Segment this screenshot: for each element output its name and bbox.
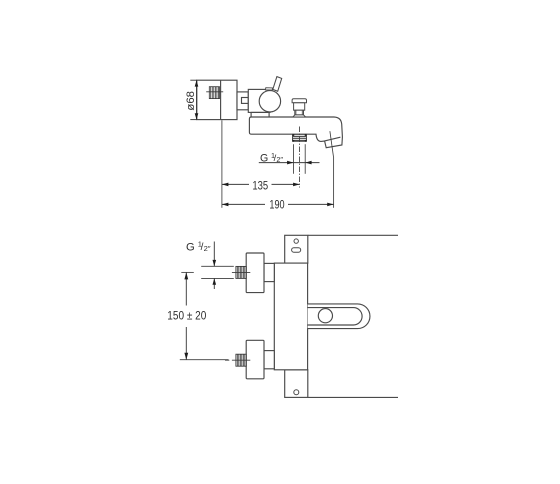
neck between knob and body — [237, 92, 248, 110]
wall top edge line — [308, 234, 398, 236]
lever base cap — [265, 88, 272, 90]
svg-text:ø68: ø68 — [185, 91, 197, 111]
svg-text:2″: 2″ — [204, 244, 211, 253]
stem under handle circle — [268, 113, 270, 117]
spout stadium outer outline — [308, 304, 370, 329]
top inlet centre line — [232, 271, 250, 273]
bath spout outline — [249, 117, 342, 148]
diverter stem — [295, 110, 304, 115]
dimension line G 1/2 (top view) — [259, 162, 320, 164]
bottom mounting tab — [285, 370, 308, 398]
top knob (plan) — [246, 253, 264, 293]
dimension line ø68 with arrows — [196, 80, 198, 119]
neck notch — [242, 98, 249, 104]
dimension line 150 ± 20 — [185, 272, 187, 305]
handle boss circle — [259, 91, 280, 112]
lever handle arm — [273, 77, 282, 92]
bottom inlet connector — [264, 351, 274, 369]
base flange under body — [251, 111, 268, 113]
diverter knob cap — [292, 99, 306, 103]
top tab screw hole — [294, 239, 298, 243]
G 1/2 dimension arrows (plan) — [213, 242, 215, 267]
dimension ø68 extension stubs — [190, 79, 197, 81]
knurled ring hatch on knob — [209, 87, 219, 99]
top view: control knob body — [197, 80, 237, 119]
diverter knob cylinder — [294, 103, 305, 110]
bottom knob (plan) — [246, 340, 264, 379]
shower hose connection nut — [293, 134, 307, 141]
dimension 190 line — [222, 203, 265, 205]
svg-text:G: G — [186, 242, 195, 254]
top mounting tab — [285, 235, 308, 263]
extension line from mounting face (left reference) — [221, 120, 223, 208]
hose centre line — [299, 127, 301, 188]
diverter base flare — [293, 115, 306, 117]
spout tip centre line — [330, 131, 334, 157]
150 dimension top tick — [181, 271, 194, 273]
bottom inlet centre line — [225, 359, 229, 361]
top tab slot — [292, 248, 301, 253]
aerator divider line — [325, 137, 341, 141]
svg-text:190: 190 — [269, 197, 285, 211]
top inlet connector — [264, 263, 274, 281]
diverter circle in stadium — [318, 309, 332, 323]
hose thread extension lines — [293, 144, 295, 174]
knob flange divider line — [220, 80, 222, 119]
svg-text:150 ± 20: 150 ± 20 — [167, 309, 206, 323]
bottom tab screw hole — [294, 390, 299, 395]
150 dimension bottom extension line — [180, 359, 229, 361]
svg-text:135: 135 — [252, 178, 268, 192]
thermostat body (plan) — [274, 263, 307, 370]
G 1/2 thread extension lines (plan) — [201, 265, 234, 267]
wall bottom edge line — [308, 396, 398, 398]
bottom inlet thread G 1/2 — [236, 354, 246, 366]
top inlet thread G 1/2 — [236, 266, 246, 278]
mixer body — [248, 89, 270, 112]
dimension 135 line — [222, 183, 249, 185]
spout stadium inner outline — [308, 308, 362, 325]
